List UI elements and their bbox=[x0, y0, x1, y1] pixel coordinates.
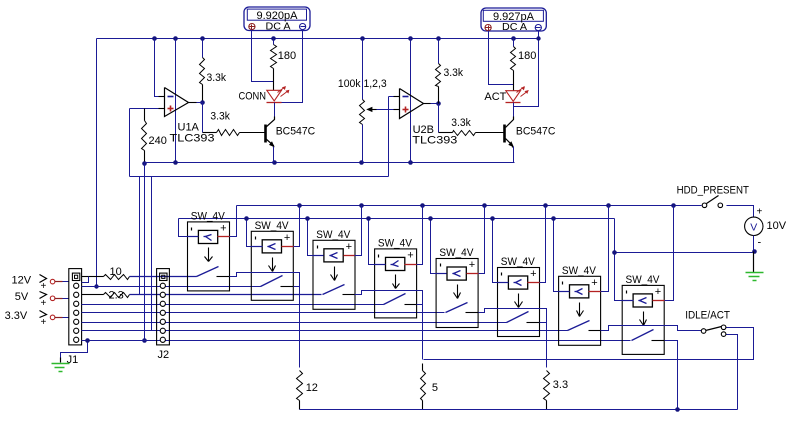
node on bus x=438 bbox=[436, 36, 441, 41]
svg-text:12: 12 bbox=[306, 382, 318, 394]
wire: row3 J1 stub bbox=[82, 294, 96, 296]
wire: ACT cathode down to Q2 collector bbox=[513, 103, 515, 117]
switch SW_4V U5 body bbox=[436, 259, 478, 328]
switch SW4 lever bbox=[384, 294, 406, 305]
node on bus x=175.8 bbox=[173, 36, 178, 41]
label J1 bbox=[67, 354, 79, 366]
node + rail tap SW2 bbox=[297, 203, 302, 208]
LED ACT symbol bbox=[506, 87, 529, 103]
label SW_4V #7 bbox=[562, 265, 597, 277]
svg-text:SW_4V: SW_4V bbox=[378, 237, 413, 249]
node + rail tap SW4 bbox=[420, 203, 425, 208]
label SW_4V #8 bbox=[626, 274, 661, 286]
wire: comparator + rail y=205.5 bbox=[237, 205, 702, 207]
svg-text:TLC393: TLC393 bbox=[170, 133, 215, 145]
label 3.3k bbox=[207, 72, 227, 84]
node + rail tap SW3 bbox=[359, 203, 364, 208]
input source 12V label bbox=[12, 274, 32, 286]
wire: SW4 output join bbox=[417, 304, 423, 306]
svg-text:+: + bbox=[655, 286, 661, 298]
wire: ground-sense line down to row8 bbox=[144, 164, 146, 341]
wire: U2B inverting input wire bbox=[389, 96, 400, 98]
switch SW8 comparator + drop wire bbox=[665, 206, 674, 301]
svg-text:3.3k: 3.3k bbox=[210, 111, 230, 123]
label TLC393 U1A bbox=[170, 133, 215, 145]
svg-text:CONN: CONN bbox=[239, 91, 267, 103]
switch SW8 comparator - hook wire bbox=[615, 219, 623, 301]
wire: ammeter2 + lead down bbox=[489, 31, 514, 85]
wire: base lead Q1 bbox=[240, 132, 265, 134]
switch SW4 output lead bbox=[405, 304, 417, 306]
wire: SW2 output join bbox=[294, 286, 300, 288]
resistor 3.3 ohm bbox=[544, 371, 550, 410]
rail B end corner bbox=[0, 0, 1, 1]
svg-text:SW_4V: SW_4V bbox=[316, 229, 351, 241]
wire: row1 J1 stub bbox=[82, 276, 96, 278]
wire: J1 ground hook bbox=[61, 341, 88, 358]
wire: row1 to J2 and SW1 bbox=[96, 276, 197, 278]
wire: U2B output to node bbox=[431, 103, 439, 105]
svg-text:+: + bbox=[41, 281, 47, 292]
node gnd bus x=410.9 bbox=[408, 160, 413, 165]
switch SW8 lever bbox=[632, 330, 654, 341]
svg-text:BC547C: BC547C bbox=[516, 126, 556, 138]
svg-text:10V: 10V bbox=[767, 220, 787, 232]
svg-text:SW_4V: SW_4V bbox=[439, 247, 474, 259]
switch SW2 comparator + drop wire bbox=[294, 206, 300, 247]
resistor 3.3k pull-up U2B bbox=[436, 64, 441, 87]
wire: 180 to ACT LED anode bbox=[513, 71, 515, 91]
svg-text:DC A: DC A bbox=[502, 21, 527, 33]
node gnd bus x=274.2 bbox=[272, 160, 277, 165]
switch SW_4V U1 body bbox=[188, 222, 230, 291]
node: 240 to ground bus bbox=[142, 161, 147, 166]
wire: row5 from J1 to SW5 bbox=[82, 312, 445, 314]
wire: SW5 output jog bbox=[479, 309, 547, 368]
wire: source - down bbox=[753, 236, 755, 252]
node gnd bus x=175.8 bbox=[173, 160, 178, 165]
switch SW1 output lead bbox=[217, 276, 230, 278]
switch SW3 output lead bbox=[343, 294, 355, 296]
transistor Q1 BC547C bbox=[266, 117, 275, 148]
label 10 bbox=[110, 266, 122, 278]
label SW_4V #6 bbox=[501, 256, 536, 268]
svg-text:J2: J2 bbox=[158, 349, 170, 361]
wire: switch to source + bbox=[727, 206, 754, 218]
resistor 3.3k pull-up U1A bbox=[200, 58, 205, 103]
node on bus x=202 bbox=[200, 36, 205, 41]
wire: ammeter1 - lead down to LED cathode bbox=[282, 30, 303, 103]
node on bus x=273.8 bbox=[271, 36, 276, 41]
label HDD_PRESENT bbox=[677, 184, 750, 196]
svg-text:SW_4V: SW_4V bbox=[255, 220, 290, 232]
wire: 12V lead bbox=[55, 281, 69, 283]
wire: row7 from J1 to SW7 bbox=[82, 330, 568, 332]
ground symbol at J1 bbox=[52, 358, 70, 372]
wire: ammeter2 - lead down to LED cathode bbox=[514, 31, 539, 107]
op-amp U2B triangle bbox=[394, 89, 431, 119]
svg-text:-: - bbox=[758, 237, 762, 249]
wire: LED cathode down to Q1 collector bbox=[274, 103, 276, 117]
node: U1A output node bbox=[200, 100, 205, 105]
resistor 12 ohm bbox=[297, 371, 303, 410]
label 3.3k base Q2 bbox=[451, 117, 471, 129]
wire: sense drop x=129.5 to mid bus bbox=[129, 109, 131, 177]
node on bus x=513.1 bbox=[511, 36, 516, 41]
wire: base resistor from U2B output bbox=[439, 104, 453, 133]
label SW_4V #2 bbox=[255, 220, 290, 232]
svg-text:SW_4V: SW_4V bbox=[562, 265, 597, 277]
label J2 bbox=[158, 349, 170, 361]
svg-text:10: 10 bbox=[110, 266, 122, 278]
switch SW8 output lead bbox=[652, 340, 665, 342]
label 12 bbox=[306, 382, 318, 394]
svg-text:100k 1,2,3: 100k 1,2,3 bbox=[338, 78, 387, 90]
wire: SW1 output to 12 ohm drop bbox=[230, 273, 300, 368]
node - rail riser tap bbox=[612, 250, 617, 255]
svg-text:3.3V: 3.3V bbox=[5, 310, 28, 322]
switch SW6 comparator + drop wire bbox=[540, 206, 546, 283]
input source 5V arrow bbox=[40, 292, 47, 309]
wire: base lead Q2 bbox=[476, 132, 504, 134]
switch SW4 comparator - hook wire bbox=[369, 219, 375, 265]
switch HDD_PRESENT bbox=[702, 196, 722, 208]
node - rail tap SW4 bbox=[366, 216, 371, 221]
wire: reference line to - rail bbox=[615, 252, 754, 254]
ammeter 2 DC A text bbox=[502, 21, 527, 33]
ammeter 1 plus terminal bbox=[249, 24, 255, 30]
label 5 bbox=[432, 382, 438, 394]
wire: row3 to J2 and SW3 bbox=[96, 294, 322, 296]
svg-text:DC A: DC A bbox=[266, 20, 291, 32]
wire: bus down to 3.3k R pullup U1A bbox=[202, 39, 204, 58]
node + rail tap SW8 bbox=[671, 203, 676, 208]
wire: row4 from J1 to SW4 bbox=[82, 304, 384, 306]
svg-text:240: 240 bbox=[149, 135, 167, 147]
wire: bus to 3.3k U2B bbox=[438, 39, 440, 64]
wire: row6 from J1 to SW6 bbox=[82, 322, 507, 324]
switch SW7 lever bbox=[568, 321, 590, 331]
svg-text:+: + bbox=[407, 249, 413, 261]
label CONN bbox=[239, 91, 267, 103]
node source minus bbox=[752, 249, 757, 254]
wire: Q1 emitter to ground bus bbox=[273, 147, 275, 163]
resistor 5 ohm bbox=[421, 364, 426, 410]
node - rail tap SW3 bbox=[305, 216, 310, 221]
node dot on row2 at x=96.4 bbox=[94, 284, 98, 288]
svg-text:180: 180 bbox=[518, 50, 536, 62]
wire: sense bus y=176.2 bbox=[130, 176, 389, 178]
wire: bus to U1A inverting input bbox=[155, 39, 165, 97]
wire: SW7 output jog bbox=[601, 326, 702, 331]
ground symbol at source bbox=[746, 252, 764, 281]
node on bus x=410.9 bbox=[408, 36, 413, 41]
svg-text:5V: 5V bbox=[15, 291, 29, 303]
switch SW3 lever bbox=[323, 285, 345, 295]
input source 12V terminal circle bbox=[50, 279, 55, 284]
connector J2 pins bbox=[157, 269, 170, 345]
wire: idle upper throw line bbox=[424, 328, 754, 360]
wire: SW6 output join bbox=[540, 322, 547, 324]
wire: row1 12V jog bbox=[82, 277, 89, 283]
label IDLE/ACT bbox=[685, 310, 730, 322]
label 2.3 bbox=[109, 289, 124, 301]
resistor 2.3 row3 bbox=[104, 293, 130, 298]
input source 3.3V arrow bbox=[40, 311, 47, 328]
LED CONN symbol bbox=[267, 86, 290, 102]
label 180 ACT bbox=[518, 50, 536, 62]
transistor Q2 BC547C bbox=[505, 117, 514, 148]
switch SW1 comparator + drop wire bbox=[230, 206, 237, 237]
switch SW_4V U2 body bbox=[251, 231, 293, 300]
resistor 240 top lead bbox=[144, 109, 146, 121]
input source 5V terminal circle bbox=[50, 296, 55, 301]
wire: 3.3k to output node bbox=[438, 87, 440, 104]
svg-text:+: + bbox=[284, 232, 290, 244]
label TLC393 U2B bbox=[412, 135, 457, 147]
input source 12V arrow bbox=[40, 275, 47, 293]
wire: 180 to LED anode bbox=[273, 69, 275, 91]
switch SW6 lever bbox=[507, 312, 529, 323]
svg-text:TLC393: TLC393 bbox=[412, 135, 457, 147]
ammeter 1 minus terminal bbox=[300, 24, 306, 30]
wire: idle lower throw riser bbox=[726, 335, 738, 410]
wire: U1A output to node bbox=[197, 102, 203, 104]
wire: sense riser x=388.9 to U2B inverting input bbox=[388, 97, 390, 177]
label BC547C Q2 bbox=[516, 126, 556, 138]
switch SW7 comparator - hook wire bbox=[554, 219, 559, 292]
resistor 10 row1 bbox=[104, 275, 130, 280]
switch SW5 lever bbox=[446, 303, 468, 313]
resistor 3.3k base Q1 bbox=[217, 130, 240, 136]
svg-text:HDD_PRESENT: HDD_PRESENT bbox=[677, 184, 750, 196]
label 180 bbox=[278, 50, 296, 62]
svg-text:3.3k: 3.3k bbox=[207, 72, 227, 84]
switch SW3 comparator - hook wire bbox=[308, 219, 313, 256]
svg-text:+: + bbox=[346, 241, 352, 253]
label BC547C Q1 bbox=[276, 126, 316, 138]
svg-text:3.3: 3.3 bbox=[553, 379, 568, 391]
switch SW5 comparator + drop wire bbox=[479, 206, 485, 274]
svg-text:V: V bbox=[750, 222, 757, 234]
label 3.3k U2B bbox=[444, 67, 464, 79]
resistor 3.3k base Q2 bbox=[453, 131, 476, 136]
svg-text:180: 180 bbox=[278, 50, 296, 62]
svg-text:+: + bbox=[41, 317, 47, 328]
wire: bus to 180 lead bbox=[273, 39, 275, 45]
switch SW5 output lead bbox=[466, 312, 479, 314]
input source 3.3V label bbox=[5, 310, 28, 322]
wire: bus down to pot bbox=[362, 39, 364, 100]
svg-text:+: + bbox=[591, 277, 597, 289]
svg-text:+: + bbox=[469, 259, 475, 271]
wire: bottom bus y=409.8 bbox=[300, 409, 738, 411]
svg-text:3.3k: 3.3k bbox=[444, 67, 464, 79]
label SW_4V #1 bbox=[191, 210, 226, 222]
node row8 at J1 bbox=[85, 338, 90, 343]
node + rail tap SW6 bbox=[543, 203, 548, 208]
pot wiper arrow bbox=[366, 107, 399, 112]
svg-text:SW_4V: SW_4V bbox=[191, 210, 226, 222]
switch SW_4V U7 body bbox=[559, 276, 601, 345]
node - rail tap SW6 bbox=[490, 216, 495, 221]
switch SW6 comparator - hook wire bbox=[493, 219, 498, 283]
wire: row8 from J1 to SW8 bbox=[82, 340, 631, 342]
wire: U2B supply line x=410.9 bbox=[410, 39, 412, 163]
node + rail tap SW7 bbox=[606, 203, 611, 208]
label SW_4V #3 bbox=[316, 229, 351, 241]
connector J1 bbox=[69, 269, 82, 345]
node on row8 x=144 bbox=[142, 338, 147, 343]
svg-text:SW_4V: SW_4V bbox=[501, 256, 536, 268]
label 3.3k base Q1 bbox=[210, 111, 230, 123]
switch IDLE/ACT bbox=[701, 325, 726, 336]
wire: comparator ground bus y=162.8 bbox=[145, 162, 515, 164]
label SW_4V #5 bbox=[439, 247, 474, 259]
wire: ammeter1 + lead down bbox=[252, 30, 274, 82]
node - rail tap SW5 bbox=[428, 216, 433, 221]
svg-text:3.3k: 3.3k bbox=[451, 117, 471, 129]
ammeter U? 9.920pA body bbox=[244, 7, 310, 31]
ammeter 1 reading text bbox=[257, 10, 299, 22]
switch SW5 comparator - hook wire bbox=[431, 219, 437, 274]
potentiometer 100k 1,2,3 bbox=[360, 100, 365, 125]
wire: U1A non-inverting input from sense bbox=[130, 108, 159, 110]
switch SW7 comparator + drop wire bbox=[601, 206, 609, 292]
node bottom bus x=677.6 bbox=[675, 407, 680, 412]
wire: U1A supply line x=175.8 bus to ground bus bbox=[175, 39, 177, 163]
voltage source V1 10V bbox=[745, 207, 763, 249]
ammeter 2 plus terminal bbox=[485, 25, 491, 31]
switch SW2 comparator - hook wire bbox=[247, 219, 252, 247]
svg-text:ACT: ACT bbox=[484, 91, 506, 103]
svg-text:+: + bbox=[530, 268, 536, 280]
node on bus x=362.1 bbox=[360, 36, 365, 41]
switch SW1 lever bbox=[197, 267, 219, 277]
svg-text:+: + bbox=[757, 207, 763, 218]
wire: left supply drop x=96.4 from bus down to row2 bbox=[96, 39, 98, 287]
label U2B bbox=[413, 124, 434, 136]
switch SW_4V U4 body bbox=[375, 249, 417, 318]
node bus end at ammeter2 minus bbox=[536, 36, 540, 40]
svg-text:BC547C: BC547C bbox=[276, 126, 316, 138]
ammeter 9.927pA body bbox=[481, 8, 546, 31]
label 10V bbox=[767, 220, 787, 232]
svg-text:IDLE/ACT: IDLE/ACT bbox=[685, 310, 730, 322]
label SW_4V #4 bbox=[378, 237, 413, 249]
node on bus x=155 bbox=[152, 36, 157, 41]
resistor 240 bbox=[142, 121, 147, 151]
input source 5V label bbox=[15, 291, 29, 303]
wire: bus to 180 ACT lead bbox=[513, 39, 515, 47]
input source 3.3V terminal circle bbox=[50, 315, 55, 320]
switch SW2 lever bbox=[261, 276, 283, 287]
resistor 180 (ACT) bbox=[511, 47, 516, 71]
node gnd bus x=361.8 bbox=[359, 160, 364, 165]
wire: comparator - rail y=218.2 bbox=[179, 218, 615, 220]
wire: pot bottom to ground bus bbox=[362, 125, 364, 163]
label 3.3 bbox=[553, 379, 568, 391]
label 100k 1,2,3 bbox=[338, 78, 387, 90]
svg-text:SW_4V: SW_4V bbox=[626, 274, 661, 286]
node + rail tap SW5 bbox=[482, 203, 487, 208]
label U1A bbox=[178, 122, 200, 134]
op-amp U1A triangle bbox=[159, 88, 197, 117]
node - rail tap SW7 bbox=[551, 216, 556, 221]
node: U2B output node bbox=[436, 101, 441, 106]
switch SW4 comparator + drop wire bbox=[417, 206, 423, 265]
wire: row2 from J1 to SW2 bbox=[82, 286, 261, 288]
wire: SW8 output down to bottom bus bbox=[665, 341, 678, 411]
node - rail tap SW2 bbox=[244, 216, 249, 221]
svg-text:+: + bbox=[220, 222, 226, 234]
wire: base resistor from U1A output bbox=[203, 103, 217, 133]
wire: sense tap x=139.8 down to row3 bbox=[139, 177, 141, 295]
resistor 180 (CONN) bbox=[271, 45, 277, 69]
wire: Q2 emitter to ground bus bbox=[514, 147, 515, 163]
switch SW_4V U3 body bbox=[313, 240, 356, 309]
svg-text:5: 5 bbox=[432, 382, 438, 394]
switch SW1 comparator - hook wire bbox=[179, 219, 188, 237]
wire: 240 bottom lead bbox=[144, 151, 146, 163]
switch SW2 output lead bbox=[281, 286, 294, 288]
wire: top supply bus y=38.7 from x=96.4 to x=538.3 bbox=[97, 38, 539, 40]
wire: 5V lead bbox=[55, 298, 69, 300]
label ACT bbox=[484, 91, 506, 103]
label 240 bbox=[149, 135, 167, 147]
wire: SW3 output jog bbox=[355, 291, 423, 360]
wire: sense tap x=151.4 down to row7 bbox=[151, 177, 153, 331]
svg-text:12V: 12V bbox=[12, 274, 32, 286]
ammeter 1 DC A text bbox=[266, 20, 291, 32]
switch SW_4V U6 body bbox=[498, 268, 540, 337]
svg-text:+: + bbox=[41, 298, 47, 309]
switch SW_4V U8 body bbox=[622, 285, 664, 354]
switch SW3 comparator + drop wire bbox=[355, 206, 362, 256]
switch SW6 output lead bbox=[527, 322, 540, 324]
ammeter 2 reading text bbox=[493, 11, 535, 23]
ammeter 2 minus terminal bbox=[535, 25, 541, 31]
wire: 3.3V lead bbox=[55, 317, 69, 319]
switch SW7 output lead bbox=[589, 330, 601, 332]
